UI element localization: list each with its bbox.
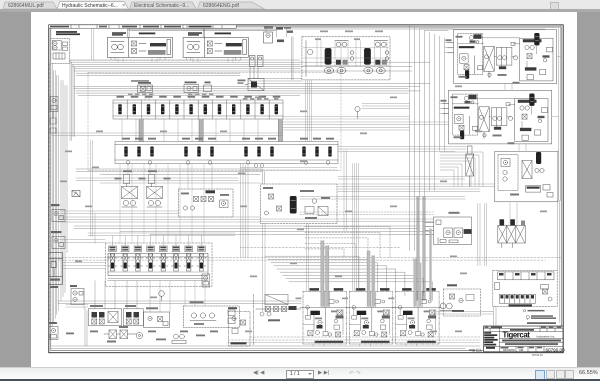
upper-left hose bus xyxy=(70,60,430,141)
breather/cooler fan block xyxy=(144,307,170,327)
gear pump block 1 xyxy=(51,204,66,222)
fan drive valve A xyxy=(115,170,146,207)
bottom dashed return bus xyxy=(228,337,480,340)
boom hose valve cluster (dashed, right of lift row) xyxy=(444,284,481,316)
brake valve L xyxy=(132,41,137,46)
oil cooler block A xyxy=(88,305,121,326)
bank section 3 xyxy=(133,246,142,271)
svg-text:60790.00: 60790.00 xyxy=(546,347,566,352)
fan drive valve B xyxy=(147,170,171,207)
fan motor circle pair bottom-left xyxy=(172,334,186,343)
oil cooler block B xyxy=(123,305,143,326)
scattered port labels xyxy=(60,30,547,332)
hose drop bar 2 xyxy=(199,119,203,142)
top-right nested feeder lines xyxy=(276,25,561,250)
L.H. track drive motor+brake group xyxy=(107,37,172,57)
tab 3: Electrical Schematic xyxy=(129,1,197,9)
lift cylinder control cluster 2 xyxy=(346,288,395,344)
svg-text:AM: AM xyxy=(519,347,524,351)
svg-text:04/04/00: 04/04/00 xyxy=(503,348,515,352)
tab bar xyxy=(0,0,600,9)
parking brake valve block xyxy=(425,211,472,244)
svg-text:Industries Inc.: Industries Inc. xyxy=(537,334,556,338)
left margin hose bundle xyxy=(51,63,67,330)
main control manifold row 2 xyxy=(115,141,338,163)
view mode icons xyxy=(535,370,545,380)
counterbalance valve L xyxy=(150,43,166,46)
bank section 8 xyxy=(197,246,206,271)
charge pump pair xyxy=(70,285,84,305)
extra hose bars to lift clusters xyxy=(321,228,432,306)
note: bulb symbol and text above title block xyxy=(523,309,556,323)
lift cylinder control cluster 1 xyxy=(300,288,349,344)
central pump box internal mesh xyxy=(303,38,389,66)
oil cooler bypass assembly xyxy=(179,189,234,217)
header risers xyxy=(92,28,493,314)
left data column rows xyxy=(484,332,498,349)
tab 4: 628664ENG.pdf xyxy=(197,1,265,9)
bank inlet gauge xyxy=(159,290,165,300)
third angle projection mark xyxy=(469,349,482,352)
drawing border outer xyxy=(49,24,563,352)
relief valve (standalone, mid right) xyxy=(466,146,474,187)
stick function valve cluster (right middle) xyxy=(441,90,552,144)
L.H. track drive labels xyxy=(112,32,155,35)
aux pump group (dashed) xyxy=(183,301,239,327)
drawing border inner xyxy=(51,26,561,350)
row 2 valve group 1 xyxy=(122,137,156,164)
bank section 2 xyxy=(121,246,130,271)
bank section 4 xyxy=(146,246,155,271)
routing mesh: manifold interconnects xyxy=(118,57,258,312)
routing mesh: pilot drops to bank sections xyxy=(113,235,202,246)
swing pilot block A xyxy=(137,82,154,93)
bank section 6 xyxy=(172,246,181,271)
tank return lines (left of bank) xyxy=(62,140,105,308)
margin dash line xyxy=(49,63,51,320)
history arrows xyxy=(349,370,361,377)
tab 1: 628664MUL.pdf xyxy=(2,1,58,9)
row 2 valve group 4 xyxy=(300,137,334,164)
title block xyxy=(484,326,566,352)
routing mesh: left half horizontals xyxy=(51,133,283,243)
gauge port xyxy=(355,106,360,118)
bottom row of title block xyxy=(499,346,501,352)
gear pump block 2 xyxy=(51,231,66,249)
R.H. track drive labels xyxy=(188,32,231,35)
return filter group xyxy=(104,326,143,343)
strip under tabs xyxy=(0,9,600,12)
feeder risers from track drives xyxy=(128,29,276,37)
park brake label xyxy=(56,31,80,35)
hose drop bar 3 xyxy=(278,119,282,142)
tab list button xyxy=(550,2,559,10)
prev page buttons xyxy=(253,370,264,376)
pilot supply manifold (center) xyxy=(261,184,338,224)
lift cylinder control cluster 3 xyxy=(393,288,442,344)
grapple valve cluster (right lower) xyxy=(495,151,558,202)
inter-cluster port labels xyxy=(296,297,395,299)
lift cylinder control cluster 0 (small) xyxy=(228,307,250,346)
central pump/valve assembly (dashed box) xyxy=(302,36,390,79)
pilot manifold cells xyxy=(499,294,535,303)
bank section 1 xyxy=(108,246,117,271)
pilot control valve assembly (bottom right) xyxy=(493,270,557,306)
pilot valve (left margin) xyxy=(50,96,58,111)
right edge drop lines xyxy=(480,200,560,326)
brake charge valve xyxy=(238,66,265,90)
bank end relief valve xyxy=(202,274,210,287)
return/suction lines below bank xyxy=(51,280,480,348)
hose drop bar 1 xyxy=(139,119,143,142)
charge valve xyxy=(264,32,273,43)
zoom percent xyxy=(579,370,598,376)
triple spool valve (right-center) xyxy=(498,219,525,247)
page number box xyxy=(286,370,314,379)
hose staircase (dashed) upper xyxy=(305,226,390,257)
main pump section 1 xyxy=(325,40,354,73)
boom function valve cluster (right top) xyxy=(446,29,557,83)
port label rows under pilot blocks xyxy=(128,80,279,100)
swing charge valve group (center bottom) xyxy=(254,294,302,345)
park brake valve assembly (dashed enclosure) xyxy=(51,38,70,63)
bottom bar xyxy=(0,367,600,379)
main system dashed enclosure xyxy=(88,72,341,170)
svg-text:60790.00: 60790.00 xyxy=(532,352,543,356)
mid hose runs xyxy=(51,169,561,260)
drain valve bottom-left xyxy=(49,322,58,340)
hose highlight bars (right-center) xyxy=(417,196,487,300)
main pump section 2 xyxy=(364,40,389,73)
bank section 7 xyxy=(184,246,193,271)
pilot header dashed line xyxy=(70,59,240,61)
dark bottom strip xyxy=(0,379,600,381)
track motor R xyxy=(188,44,194,50)
tab 2 active: Hydraulic Schematic xyxy=(57,1,129,9)
track drive port pins xyxy=(111,26,291,59)
hydraulic tank xyxy=(49,252,63,288)
hose staircase (solid) to lift clusters xyxy=(265,256,433,300)
routing mesh: center verticals xyxy=(241,79,417,345)
left margin fittings xyxy=(50,111,56,133)
swing pilot block B xyxy=(184,81,212,92)
right cluster connector stubs xyxy=(440,42,561,225)
center-left vertical pair xyxy=(240,150,465,230)
routing mesh: nested corner fan (right) xyxy=(440,152,483,187)
row 2 valve group 2 xyxy=(182,137,216,164)
row 2 valve group 3 xyxy=(242,137,276,167)
counterbalance valve R xyxy=(226,43,242,46)
extra right-band horizontals xyxy=(228,116,480,342)
orbital motor pair xyxy=(440,303,452,310)
brake valve R xyxy=(207,41,212,46)
manifold row 1 spools and labels xyxy=(117,95,281,114)
R.H. track drive motor+brake group xyxy=(183,37,248,57)
main control manifold row 1 xyxy=(113,100,283,119)
bank section 5 xyxy=(159,246,168,271)
revision table xyxy=(49,24,273,28)
pilot drops row2 to bank xyxy=(120,163,204,243)
next page buttons xyxy=(318,370,329,376)
mid hose bus xyxy=(74,78,430,95)
accumulator pair xyxy=(250,27,294,67)
shuttle valve block left xyxy=(72,190,80,196)
svg-text:Tigercat: Tigercat xyxy=(503,330,531,339)
main valve bank (8 sections) dashed enclosure xyxy=(106,243,213,287)
case drain labels bottom-left xyxy=(66,330,218,340)
track motor L xyxy=(112,44,118,50)
routing mesh: right half horizontals xyxy=(260,103,495,221)
